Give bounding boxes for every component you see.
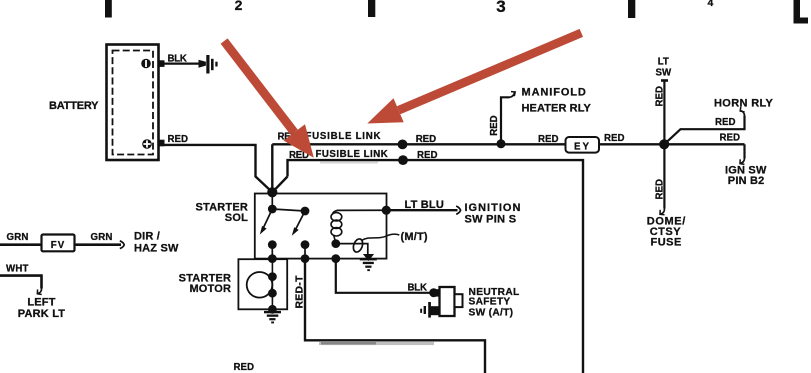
scan smudge bottom wire (319, 342, 434, 345)
svg-text:WHT: WHT (6, 264, 29, 275)
svg-text:RED: RED (604, 133, 624, 144)
node dot neutral safety (429, 288, 438, 297)
label STARTER MOTOR (179, 273, 232, 296)
svg-text:PIN B2: PIN B2 (728, 175, 765, 187)
annotation red arrow 2 (367, 29, 583, 124)
svg-text:3: 3 (496, 0, 505, 16)
arrow hook to MANIFOLD HEATER RLY (510, 93, 515, 98)
node dot coil bottom (331, 239, 340, 248)
svg-text:RED: RED (720, 133, 740, 144)
starter motor M1 (247, 259, 277, 313)
wire battery negative BLK (160, 62, 201, 64)
node dot solenoid output to LT BLU (382, 206, 391, 215)
label MANIFOLD HEATER RLY (522, 87, 592, 115)
starter motor box (238, 259, 287, 309)
svg-text:RED-T: RED-T (295, 275, 306, 309)
ground G1 (battery negative, sideways) (199, 55, 218, 74)
battery B1 (107, 45, 165, 161)
svg-text:RED: RED (489, 115, 500, 135)
svg-text:HAZ SW: HAZ SW (134, 243, 179, 255)
wire LT BLU to ignition sw (386, 209, 457, 211)
svg-text:RED: RED (715, 117, 735, 128)
svg-text:RED: RED (654, 179, 665, 199)
svg-text:2: 2 (235, 0, 243, 13)
wire GRN to FV (0, 243, 42, 246)
svg-text:LEFT: LEFT (27, 296, 55, 308)
page corner bracket (794, 0, 809, 24)
label LEFT PARK LT (18, 296, 66, 320)
wire drop from fusible link 1 to V junction (271, 144, 273, 192)
svg-text:SW PIN S: SW PIN S (465, 214, 517, 226)
svg-text:HEATER RLY: HEATER RLY (522, 102, 592, 114)
svg-text:SW: SW (655, 67, 671, 78)
svg-text:EY: EY (574, 141, 591, 152)
svg-text:FUSIBLE LINK: FUSIBLE LINK (316, 149, 389, 160)
node dot coil circuit at box bottom (331, 254, 340, 263)
label LT SW (655, 57, 671, 79)
solenoid contact link (272, 209, 305, 211)
svg-text:HORN RLY: HORN RLY (714, 97, 774, 109)
label STARTER SOL (195, 202, 248, 225)
label NEUTRAL SAFETY SW (A/T) (469, 287, 520, 318)
svg-text:SOL: SOL (225, 212, 248, 224)
node dot fusible link 2 (398, 155, 408, 165)
svg-text:RED: RED (168, 134, 188, 145)
svg-text:BLK: BLK (408, 283, 428, 294)
svg-text:GRN: GRN (7, 232, 29, 243)
svg-text:(M/T): (M/T) (401, 231, 428, 243)
svg-text:SW (A/T): SW (A/T) (469, 307, 514, 318)
wire to LT SW (663, 81, 665, 144)
ground G2 (solenoid coil) (360, 254, 377, 271)
scan smudge under link 2 (320, 161, 378, 163)
svg-text:LT BLU: LT BLU (405, 199, 445, 211)
svg-text:PARK LT: PARK LT (18, 308, 66, 320)
wire to HORN RLY (664, 116, 744, 145)
svg-text:GRN: GRN (91, 232, 113, 243)
wire coil top to LT BLU node (337, 209, 386, 211)
svg-text:RED: RED (417, 150, 437, 161)
node dot manifold branch (497, 139, 506, 148)
wire BLK to neutral safety switch (336, 259, 430, 293)
page tick mark 1 (105, 0, 112, 18)
wire to DOME/CTSY FUSE (663, 144, 665, 208)
wire fusible link 2 (288, 160, 584, 373)
svg-text:MANIFOLD: MANIFOLD (522, 87, 587, 99)
wire GRN to DIR/HAZ SW (75, 243, 122, 246)
svg-text:MOTOR: MOTOR (189, 283, 231, 295)
starter solenoid box (255, 194, 387, 259)
neutral safety switch SW1 (420, 287, 462, 318)
solenoid contact 1 (260, 194, 277, 235)
svg-text:LT: LT (658, 57, 669, 68)
pointer curve to (M/T) (362, 234, 400, 240)
label IGN SW PIN B2 (725, 165, 767, 188)
page tick mark 3 (628, 0, 635, 18)
wire WHT to left park lt (0, 276, 42, 289)
svg-text:FV: FV (51, 240, 65, 251)
wire battery positive RED to junction (160, 145, 272, 192)
wire fusible link 1 (main RED bus) (272, 143, 565, 145)
svg-text:RED: RED (654, 86, 665, 106)
svg-text:RED: RED (538, 134, 558, 145)
connector EY (566, 137, 600, 153)
svg-text:FUSIBLE LINK: FUSIBLE LINK (306, 131, 382, 142)
solenoid contact 2 (292, 207, 310, 236)
wire branch to manifold heater relay (501, 97, 510, 144)
svg-text:RED: RED (234, 362, 254, 373)
wire to IGN SW PIN B2 (743, 144, 745, 158)
solenoid coil L1 (331, 210, 342, 243)
annotation red arrow 1 (221, 38, 314, 157)
svg-text:BATTERY: BATTERY (49, 100, 99, 112)
connector loop (M/T) (352, 238, 365, 254)
page tick mark 2 (368, 0, 375, 17)
node dot fusible link 1 (398, 140, 408, 150)
label DIR / HAZ SW (134, 231, 179, 255)
label DOME/CTSY FUSE (647, 215, 686, 248)
node dot main junction (659, 139, 669, 149)
connector FV (42, 235, 75, 252)
svg-text:IGNITION: IGNITION (465, 202, 522, 214)
svg-text:DIR /: DIR / (134, 231, 160, 243)
label RED FUSIBLE LINK (bottom) (289, 149, 388, 161)
svg-text:FUSE: FUSE (651, 236, 682, 248)
label IGNITION SW PIN S (465, 202, 522, 226)
svg-text:RED: RED (416, 134, 436, 145)
svg-text:4: 4 (708, 0, 714, 9)
solenoid lower contact stubs (268, 240, 310, 263)
wire RED-T from solenoid to bottom (305, 259, 485, 373)
svg-text:BLK: BLK (168, 53, 187, 64)
node dot V junction (267, 187, 277, 197)
svg-text:SAFETY: SAFETY (469, 296, 511, 307)
wire coil bottom to ground (336, 244, 368, 255)
ground G3 (starter motor) (264, 311, 281, 324)
label RED FUSIBLE LINK (top) (278, 131, 382, 143)
